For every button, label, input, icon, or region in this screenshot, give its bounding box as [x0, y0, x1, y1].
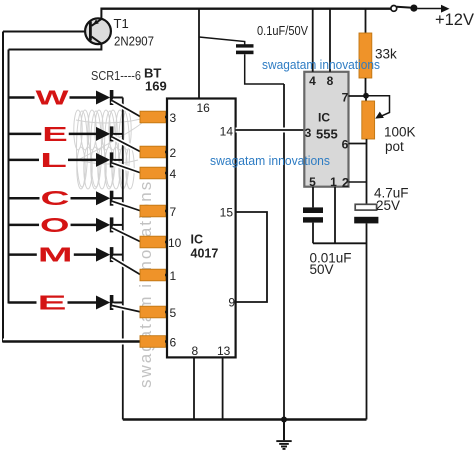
- svg-text:5: 5: [170, 306, 177, 320]
- svg-text:555: 555: [316, 127, 338, 142]
- svg-text:4: 4: [170, 167, 177, 181]
- svg-text:4017: 4017: [191, 247, 219, 261]
- svg-text:16: 16: [197, 101, 211, 115]
- svg-text:3: 3: [170, 111, 177, 125]
- svg-text:50V: 50V: [310, 262, 334, 277]
- svg-text:169: 169: [145, 79, 167, 94]
- svg-text:pot: pot: [385, 139, 404, 154]
- svg-text:6: 6: [342, 138, 349, 152]
- svg-text:8: 8: [327, 74, 334, 88]
- svg-text:15: 15: [220, 206, 234, 220]
- svg-text:7: 7: [342, 91, 349, 105]
- svg-text:E: E: [42, 124, 68, 146]
- svg-text:10: 10: [168, 236, 182, 250]
- svg-text:2N2907: 2N2907: [114, 34, 154, 49]
- svg-text:100K: 100K: [384, 125, 416, 140]
- svg-text:IC: IC: [191, 233, 204, 247]
- svg-text:9: 9: [228, 296, 235, 310]
- svg-text:13: 13: [217, 344, 231, 358]
- svg-text:14: 14: [220, 124, 234, 138]
- svg-text:1: 1: [330, 175, 337, 189]
- svg-text:M: M: [38, 245, 73, 267]
- svg-text:E: E: [38, 293, 67, 315]
- svg-text:2: 2: [342, 175, 349, 190]
- svg-text:W: W: [36, 88, 69, 110]
- svg-text:4: 4: [309, 74, 316, 88]
- svg-text:C: C: [41, 188, 70, 210]
- svg-text:+12V: +12V: [435, 11, 474, 29]
- svg-text:IC: IC: [318, 111, 330, 125]
- svg-text:L: L: [40, 150, 67, 172]
- svg-text:3: 3: [305, 126, 312, 140]
- svg-text:SCR1----6: SCR1----6: [91, 68, 141, 83]
- svg-text:25V: 25V: [376, 198, 400, 213]
- svg-text:2: 2: [170, 146, 177, 160]
- svg-text:0.1uF/50V: 0.1uF/50V: [257, 23, 308, 38]
- svg-text:1: 1: [170, 269, 177, 283]
- svg-text:8: 8: [192, 344, 199, 358]
- svg-text:swagatam innovations: swagatam innovations: [210, 154, 330, 168]
- svg-text:6: 6: [170, 336, 177, 350]
- svg-text:O: O: [40, 215, 70, 237]
- svg-text:7: 7: [170, 205, 177, 219]
- svg-text:swagatam innovations: swagatam innovations: [262, 58, 380, 72]
- svg-text:T1: T1: [114, 16, 129, 31]
- svg-text:5: 5: [309, 175, 316, 189]
